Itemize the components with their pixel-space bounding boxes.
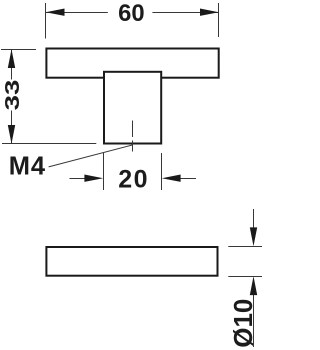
dimension D10: lower dimension line + up arrow xyxy=(253,293,255,347)
dimension 20: left arrow + tail xyxy=(70,178,87,180)
knob stem xyxy=(104,72,161,144)
dimension D10: bottom extension line xyxy=(228,276,262,278)
dimension 60: left extension line xyxy=(45,3,47,39)
svg-text:M4: M4 xyxy=(9,153,46,181)
svg-text:60: 60 xyxy=(118,0,144,27)
dimension 20: right extension line xyxy=(161,153,163,190)
center line of stem xyxy=(132,121,134,138)
svg-text:33: 33 xyxy=(1,80,23,111)
M4 leader line xyxy=(49,145,133,167)
bar (bottom view) xyxy=(46,247,217,276)
dimension 33: bottom extension line xyxy=(2,143,96,145)
dimension D10: upper dimension line + down arrow xyxy=(253,209,255,229)
knob head bar (front view) xyxy=(46,49,218,78)
dimension 60: right extension line xyxy=(218,3,220,37)
dimension 60: right arrow xyxy=(200,9,219,16)
dimension 33: top extension line xyxy=(1,49,36,51)
svg-text:20: 20 xyxy=(118,165,149,193)
dimension 33: down arrow xyxy=(8,125,15,144)
dimension 60: dimension line xyxy=(46,12,108,14)
dimension 33: up arrow xyxy=(8,49,15,68)
svg-text:Ø10: Ø10 xyxy=(228,299,258,348)
dimension 33: dimension line xyxy=(11,50,13,80)
dimension D10: top extension line xyxy=(228,246,262,248)
dimension 20: right arrow + tail xyxy=(179,178,196,180)
dimension 20: left extension line xyxy=(103,153,105,190)
dimension 60: left arrow xyxy=(46,9,65,16)
